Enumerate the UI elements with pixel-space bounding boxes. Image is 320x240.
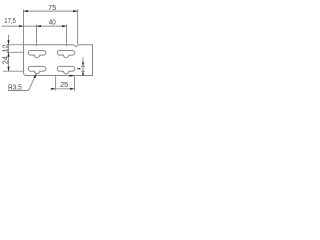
R3,5 underline <box>8 90 29 92</box>
svg-text:12: 12 <box>1 44 10 52</box>
arrow 12/24 shared at y52.5 (points up) <box>7 52 9 56</box>
ext x36.5 <box>36 25 38 47</box>
svg-text:17,5: 17,5 <box>4 16 16 25</box>
arrow 75 right <box>73 10 77 12</box>
dim 75 line <box>24 10 78 12</box>
arrow 12 top (points down) <box>7 40 9 44</box>
ext left x23.5 <box>23 10 25 45</box>
ext x74.5 <box>74 76 76 90</box>
part outline <box>24 45 93 76</box>
ext x56.5 <box>55 76 57 90</box>
ext y52.5 <box>7 51 24 53</box>
bottom edge arrow (points right) <box>69 75 75 77</box>
arrow 75 left <box>24 10 28 12</box>
svg-text:40: 40 <box>49 18 56 27</box>
ext y71.5 <box>3 70 24 72</box>
tick y70.1 <box>81 70 85 72</box>
dim 17.5/40 line <box>2 25 67 27</box>
small arrow tail <box>77 68 81 70</box>
slot row1 left <box>28 51 46 58</box>
R3,5 leader diagonal <box>29 74 37 91</box>
slot row2 left <box>28 66 46 73</box>
svg-text:75: 75 <box>48 3 56 12</box>
arrow slot width bottom (points up) <box>82 71 84 75</box>
arrow 40 right <box>62 25 66 27</box>
arrow 17.5 left (outside, points right) <box>19 25 23 27</box>
R3,5 leader arrowhead <box>33 74 36 78</box>
tick y65.5 <box>81 65 85 67</box>
dim 25 line <box>51 88 75 90</box>
left dim line x8.5 <box>8 35 10 71</box>
right small dim line x82.5 <box>82 58 84 75</box>
ext y44.5 <box>7 44 24 46</box>
ext x66.5 <box>66 25 68 47</box>
small arrow points left <box>77 68 80 70</box>
arrow 24 bottom (points down) <box>7 67 9 71</box>
ext right x76.5 <box>77 9 79 44</box>
svg-text:24: 24 <box>1 56 10 64</box>
arrow slot width top (points down) <box>82 62 84 66</box>
slot row2 right <box>57 66 75 73</box>
arrow 25 right (points right) <box>70 88 74 90</box>
arrow 17.5/40 shared at x36.5 (points left) <box>37 25 41 27</box>
svg-text:R3,5: R3,5 <box>8 82 22 91</box>
slot row1 right <box>57 51 75 58</box>
arrow 25 left (points right) <box>51 88 55 90</box>
svg-text:25: 25 <box>60 80 68 89</box>
